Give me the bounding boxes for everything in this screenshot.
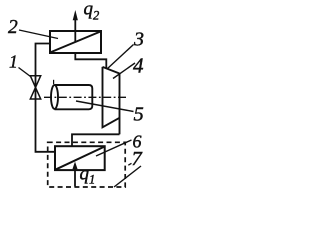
leader line 7	[114, 166, 141, 187]
throttle valve 1 (two triangles)	[30, 76, 40, 99]
leader line 6	[96, 140, 132, 156]
leader line 7 stub	[128, 163, 131, 165]
cold chamber 7 (dashed box)	[48, 142, 126, 187]
svg-text:7: 7	[132, 148, 143, 170]
evaporator 6 (rectangle with diagonal)	[55, 146, 105, 170]
svg-text:1: 1	[9, 52, 18, 72]
outlet wire from diffuser to evaporator	[72, 134, 120, 146]
condenser 2 (rectangle with diagonal)	[50, 31, 101, 53]
leader line 2	[19, 30, 58, 39]
dash-dot axis centerline	[44, 96, 128, 98]
svg-text:3: 3	[133, 29, 144, 51]
leader line 5	[76, 101, 134, 112]
leader line 1	[19, 68, 31, 77]
leader line 3	[107, 45, 134, 70]
svg-text:5: 5	[134, 104, 144, 126]
svg-text:2: 2	[8, 17, 18, 38]
svg-text:4: 4	[133, 54, 144, 78]
wire condenser left to valve down to evaporator	[36, 44, 56, 152]
heat out arrow q2	[73, 10, 78, 42]
mixing chamber / diffuser 4 (trapezoid)	[103, 67, 120, 134]
heat in arrow q1	[72, 162, 77, 187]
ejector nozzle cylinder 5	[51, 85, 92, 109]
centerline tick above ellipse	[53, 80, 55, 84]
leader line 4	[113, 63, 135, 79]
wire condenser bottom to ejector top inlet	[75, 53, 106, 69]
